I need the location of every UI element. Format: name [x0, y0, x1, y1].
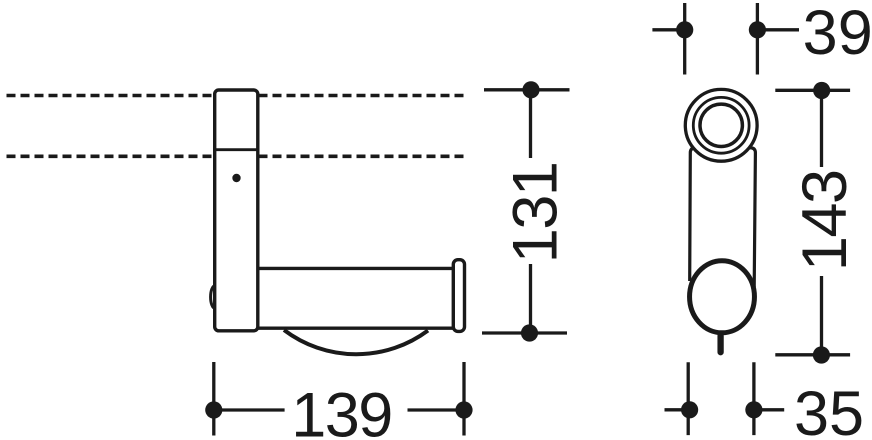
dim 131 bottom dot: [521, 324, 538, 341]
dim 139 left segment: [214, 408, 285, 411]
dim 131 bottom tick: [482, 331, 567, 334]
dim 139 right dot: [455, 401, 472, 418]
dim 131 top dot: [522, 81, 539, 98]
dim 143 bottom dot: [813, 346, 830, 363]
dim 143 bottom tick: [775, 353, 850, 356]
dim 35 left dot: [681, 401, 698, 418]
svg-text:139: 139: [291, 380, 392, 440]
dim 39 right segment: [753, 28, 799, 31]
roll disc bottom arc (side view): [284, 330, 428, 354]
dim 139 left extension line: [212, 362, 215, 436]
dim 131 lower segment: [529, 264, 532, 333]
rosette inner circle: [700, 104, 742, 146]
hook tip stem: [717, 336, 723, 352]
dim 39 right extension line: [756, 3, 759, 75]
svg-text:131: 131: [500, 163, 570, 264]
rosette outer circle: [685, 89, 757, 161]
dim 39 right dot: [749, 21, 766, 38]
dim 131 upper segment: [529, 90, 532, 158]
dim 35 right segment: [754, 408, 784, 411]
arm fill (side view): [257, 267, 454, 329]
dim 35 right extension line: [752, 362, 755, 435]
dim 139 left dot: [205, 401, 222, 418]
dashed axis line 1 (grab rail upper): [7, 94, 469, 98]
dim 131 top tick: [484, 88, 570, 91]
screw hole dot: [232, 174, 240, 182]
dim 35 left segment: [665, 408, 691, 411]
arm top edge: [258, 267, 454, 270]
dim 139 right extension line: [462, 362, 465, 436]
dim 143 top tick: [775, 89, 850, 92]
rosette bulge behind wall plate (side view): [211, 286, 220, 309]
dim 143 upper segment: [820, 90, 823, 167]
dim 39 left segment: [652, 28, 688, 31]
dim 35 right dot: [745, 401, 762, 418]
svg-text:143: 143: [790, 170, 860, 271]
wall plate (side view): [215, 90, 258, 331]
svg-text:35: 35: [794, 379, 864, 440]
wall plate divider line: [213, 148, 259, 151]
front view flap body: [690, 148, 756, 287]
svg-text:39: 39: [803, 0, 872, 68]
dim 139 right segment: [408, 408, 465, 411]
dim 39 left dot: [676, 21, 693, 38]
arm bottom edge: [258, 327, 454, 330]
rosette middle circle: [693, 97, 749, 153]
dashed axis line 2 (grab rail lower): [7, 155, 465, 159]
dim 35 left extension line: [687, 362, 690, 435]
hook ring (front view): [690, 261, 755, 333]
dim 143 top dot: [813, 82, 830, 99]
dim 143 lower segment: [820, 276, 823, 355]
arm end cap: [453, 260, 464, 332]
dim 39 left extension line: [683, 3, 686, 75]
